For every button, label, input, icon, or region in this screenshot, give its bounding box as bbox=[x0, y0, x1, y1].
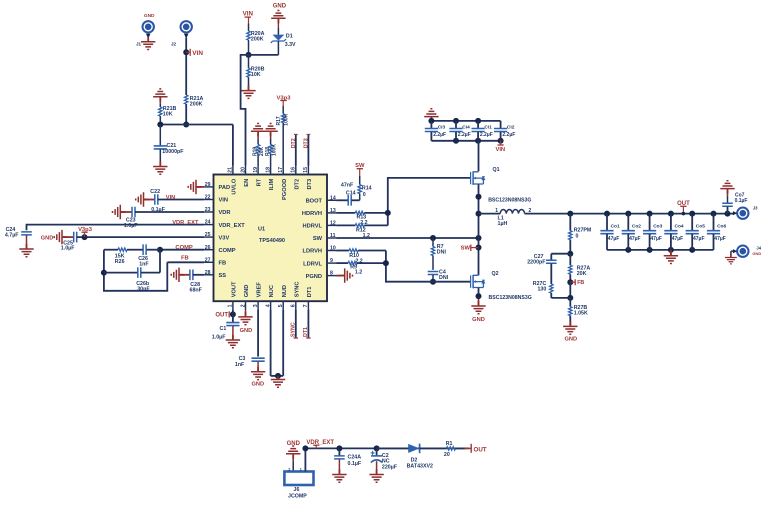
svg-text:DT1: DT1 bbox=[303, 327, 309, 337]
resistor R27A 20K bbox=[569, 254, 591, 283]
svg-text:14: 14 bbox=[330, 195, 336, 201]
svg-text:21: 21 bbox=[228, 167, 234, 173]
svg-text:J6: J6 bbox=[294, 487, 300, 493]
capacitor Co2 47uF bbox=[622, 214, 642, 250]
capacitor Ci2 2.2uF bbox=[494, 121, 515, 141]
svg-text:U1: U1 bbox=[258, 226, 265, 232]
svg-text:C24A: C24A bbox=[348, 455, 362, 461]
svg-text:Co6: Co6 bbox=[717, 223, 726, 229]
inductor L1 1uH bbox=[479, 208, 532, 227]
net label SYNC at pin 6 bbox=[291, 310, 298, 338]
svg-text:1: 1 bbox=[495, 208, 498, 214]
svg-text:Co5: Co5 bbox=[696, 223, 705, 229]
svg-text:25: 25 bbox=[205, 232, 211, 238]
resistor R12 1.2 bbox=[337, 224, 388, 239]
svg-text:R1: R1 bbox=[446, 441, 453, 447]
svg-text:R27PM: R27PM bbox=[574, 228, 592, 234]
svg-text:10: 10 bbox=[330, 246, 336, 252]
svg-text:6: 6 bbox=[291, 304, 297, 307]
svg-text:200K: 200K bbox=[251, 36, 264, 42]
svg-text:10K: 10K bbox=[163, 111, 173, 117]
transistor Q2 BSC123N08NS3G bbox=[471, 271, 532, 301]
svg-text:DT2: DT2 bbox=[294, 179, 300, 190]
ground below pins 4 5 bbox=[271, 376, 285, 387]
svg-text:1.0µF: 1.0µF bbox=[61, 246, 75, 252]
net label VIN at R20A bbox=[243, 11, 254, 24]
ground below C24 bbox=[19, 244, 33, 257]
svg-text:PAD: PAD bbox=[219, 185, 231, 191]
svg-text:J2: J2 bbox=[171, 42, 177, 47]
ground at output cap bank bbox=[664, 250, 678, 264]
capacitor C26 1nF bbox=[138, 244, 160, 267]
resistor R21B 10K bbox=[159, 97, 177, 125]
connector J3 OUT bbox=[733, 206, 758, 220]
wire EN node to pin 20 bbox=[241, 55, 249, 166]
net label OUT at R1 bbox=[471, 444, 487, 454]
svg-text:C22: C22 bbox=[150, 189, 160, 195]
wire low side gate node to Q2 bbox=[383, 251, 471, 282]
resistor R21A 200K bbox=[185, 95, 204, 107]
svg-text:SYNC: SYNC bbox=[291, 322, 297, 337]
svg-text:13: 13 bbox=[330, 208, 336, 214]
net label FB at divider bbox=[567, 279, 584, 286]
capacitor C2 NC 220uF polarized bbox=[371, 448, 398, 474]
svg-text:VIN: VIN bbox=[192, 50, 203, 57]
wire input cap rails bbox=[428, 118, 503, 144]
svg-text:4: 4 bbox=[265, 304, 271, 307]
net label GND at J1 bbox=[144, 13, 155, 19]
svg-text:DNI: DNI bbox=[437, 249, 447, 255]
ground above D1 bbox=[271, 10, 285, 28]
capacitor Co6 47uF bbox=[707, 214, 727, 250]
svg-text:47µF: 47µF bbox=[608, 236, 620, 242]
svg-text:BAT43XV2: BAT43XV2 bbox=[407, 463, 433, 469]
svg-text:FB: FB bbox=[181, 256, 189, 262]
svg-text:47µF: 47µF bbox=[693, 236, 705, 242]
wire VDR_EXT rail bbox=[302, 445, 469, 451]
svg-text:Ci4: Ci4 bbox=[462, 125, 470, 131]
svg-text:47µF: 47µF bbox=[629, 236, 641, 242]
svg-text:Q2: Q2 bbox=[492, 271, 499, 277]
node divider top bbox=[567, 251, 573, 257]
net label VDR_EXT at J6 bbox=[306, 440, 334, 449]
connector J1 bbox=[136, 20, 155, 47]
svg-text:R18: R18 bbox=[265, 147, 271, 156]
svg-text:7: 7 bbox=[303, 304, 309, 307]
capacitor Ci3 2.2uF bbox=[425, 121, 446, 141]
net label VIN at J2 bbox=[186, 49, 203, 57]
svg-text:12: 12 bbox=[330, 221, 336, 227]
svg-text:BOOT: BOOT bbox=[306, 199, 323, 205]
net label DT2 wire to pin 16 bbox=[291, 134, 298, 165]
svg-text:Co2: Co2 bbox=[632, 223, 641, 229]
svg-text:SW: SW bbox=[355, 163, 365, 169]
capacitor Co4 47uF bbox=[664, 214, 684, 250]
capacitor C28 68nF bbox=[179, 270, 204, 294]
capacitor C25 1.0uF bbox=[61, 232, 205, 252]
net label VIN at C22 bbox=[166, 195, 175, 201]
svg-text:HDRVH: HDRVH bbox=[302, 211, 322, 217]
capacitor C3 1nF bbox=[235, 310, 265, 372]
connector J2 bbox=[171, 20, 193, 47]
svg-text:24: 24 bbox=[205, 220, 211, 226]
op-amp U1 TPS40490 controller IC body bbox=[214, 175, 328, 302]
svg-text:100K: 100K bbox=[271, 144, 277, 156]
resistor R27C 130 bbox=[533, 264, 571, 298]
net label V3p3 at C25 bbox=[78, 227, 93, 240]
capacitor C24 4.7uF bbox=[5, 227, 32, 249]
net label GND below Q2 bbox=[472, 317, 485, 323]
wire Q2 source to ground bbox=[476, 288, 482, 306]
svg-text:47nF: 47nF bbox=[341, 182, 354, 188]
svg-text:2.2µF: 2.2µF bbox=[433, 132, 446, 138]
svg-text:5: 5 bbox=[278, 304, 284, 307]
capacitor C27 2200pF bbox=[527, 254, 570, 266]
svg-text:1nF: 1nF bbox=[235, 362, 245, 368]
svg-text:2.2µF: 2.2µF bbox=[480, 132, 493, 138]
svg-text:VDR: VDR bbox=[219, 210, 231, 216]
svg-text:15: 15 bbox=[303, 167, 309, 173]
svg-text:ILIM: ILIM bbox=[269, 179, 275, 191]
capacitor Co7 0.1uF bbox=[722, 189, 747, 214]
svg-text:1.2: 1.2 bbox=[355, 270, 362, 276]
svg-text:16: 16 bbox=[291, 167, 297, 173]
svg-text:17: 17 bbox=[278, 167, 284, 173]
svg-text:OUT: OUT bbox=[215, 313, 228, 319]
svg-text:20: 20 bbox=[444, 452, 450, 458]
svg-text:2200pF: 2200pF bbox=[527, 260, 546, 266]
ground below R20B bbox=[241, 85, 255, 98]
zener diode D1 3.3V bbox=[271, 28, 296, 55]
ground at input cap bank bbox=[424, 109, 438, 122]
net label GND above D1 bbox=[273, 3, 287, 9]
svg-text:10K: 10K bbox=[251, 72, 261, 78]
ground below C3 bbox=[251, 367, 265, 380]
capacitor C14 47nF bbox=[337, 182, 360, 205]
svg-text:GND: GND bbox=[273, 3, 287, 9]
svg-text:VIN: VIN bbox=[219, 198, 228, 204]
net label GND below R27B bbox=[564, 337, 577, 343]
svg-text:VIN: VIN bbox=[495, 147, 505, 153]
svg-text:LDRVH: LDRVH bbox=[303, 249, 323, 255]
svg-text:SW: SW bbox=[461, 245, 471, 251]
capacitor Co3 47uF bbox=[643, 214, 663, 250]
svg-text:GND: GND bbox=[240, 328, 253, 334]
net label OUT at output rail bbox=[677, 201, 690, 216]
wire D1 anode to EN node bbox=[249, 54, 279, 56]
svg-text:V3V: V3V bbox=[219, 235, 230, 241]
svg-text:28: 28 bbox=[205, 270, 211, 276]
ground below R27B bbox=[563, 321, 577, 334]
ground at J4 bbox=[725, 253, 737, 264]
resistor R18 100K bbox=[265, 131, 277, 165]
resistor R7 DNI bbox=[431, 238, 446, 270]
net label DT1 at pin 7 bbox=[303, 310, 310, 338]
capacitor Co5 47uF bbox=[686, 214, 706, 250]
ground at J6 pin 1 bbox=[286, 446, 300, 472]
net label VIN at input caps bbox=[495, 141, 505, 153]
net label DT3 wire to pin 15 bbox=[304, 134, 311, 165]
net label VDR_EXT at pin 24 bbox=[172, 220, 199, 226]
svg-text:Co1: Co1 bbox=[611, 223, 620, 229]
svg-text:1.0µF: 1.0µF bbox=[124, 223, 138, 229]
svg-text:4.7µF: 4.7µF bbox=[5, 232, 19, 238]
svg-text:100K: 100K bbox=[283, 113, 289, 125]
ground at C25 bbox=[54, 230, 67, 244]
svg-text:D1: D1 bbox=[286, 34, 293, 40]
svg-text:GND: GND bbox=[252, 381, 265, 387]
svg-text:LDRVL: LDRVL bbox=[303, 261, 322, 267]
net label GND at J6 bbox=[287, 441, 301, 447]
svg-text:DT3: DT3 bbox=[307, 179, 313, 190]
svg-text:Ci3: Ci3 bbox=[438, 125, 446, 131]
svg-text:23: 23 bbox=[205, 207, 211, 213]
transistor Q1 BSC123N08NS3G bbox=[471, 167, 532, 204]
net label GND at pin 2 bbox=[240, 328, 253, 334]
capacitor C26b 30pF bbox=[104, 250, 160, 293]
resistor R20B 10K bbox=[247, 55, 265, 91]
svg-text:9: 9 bbox=[330, 258, 333, 264]
wire UVLO node to pin 21 bbox=[157, 122, 233, 166]
connector J4 GND bbox=[731, 245, 762, 258]
wire J2 to VIN divider bbox=[183, 38, 189, 128]
svg-text:8: 8 bbox=[330, 271, 333, 277]
svg-text:BSC123N08NS3G: BSC123N08NS3G bbox=[489, 295, 532, 301]
svg-text:20K: 20K bbox=[577, 271, 587, 277]
capacitor C22 0.1uF bbox=[144, 189, 205, 213]
svg-text:RT: RT bbox=[257, 178, 263, 186]
wire comp left branch bbox=[101, 250, 167, 291]
svg-text:130: 130 bbox=[537, 287, 546, 293]
capacitor Ci1 2.2uF bbox=[472, 121, 493, 141]
svg-text:R19: R19 bbox=[253, 147, 259, 156]
svg-text:C14: C14 bbox=[346, 190, 356, 196]
svg-text:R14: R14 bbox=[362, 186, 372, 192]
svg-text:UVLO: UVLO bbox=[232, 178, 238, 194]
svg-text:19: 19 bbox=[253, 167, 259, 173]
wire VDR_EXT pin 24 to C24 bbox=[27, 225, 205, 231]
svg-text:VDR_EXT: VDR_EXT bbox=[306, 440, 334, 446]
net label SW at R14 bbox=[355, 163, 365, 176]
svg-text:0: 0 bbox=[576, 234, 579, 240]
svg-text:18: 18 bbox=[265, 167, 271, 173]
svg-text:SS: SS bbox=[219, 273, 227, 279]
resistor R26 15K bbox=[104, 248, 143, 265]
svg-text:BSC123N08NS3G: BSC123N08NS3G bbox=[488, 198, 531, 204]
net label V3p3 at R17 bbox=[276, 95, 291, 106]
net label GND at C3 bbox=[252, 381, 265, 387]
svg-text:JCOMP: JCOMP bbox=[288, 494, 307, 500]
U1 pin stubs and pin numbers bbox=[204, 166, 336, 311]
ground at U1 PGND pin 8 bbox=[337, 268, 353, 282]
resistor R13 2.2 bbox=[337, 211, 388, 226]
resistor R14 0 bbox=[358, 176, 372, 200]
capacitor C21 10000pF bbox=[154, 125, 185, 167]
capacitor C4 DNI snubber bbox=[428, 270, 449, 285]
svg-text:0.1µF: 0.1µF bbox=[735, 198, 748, 204]
svg-text:DNI: DNI bbox=[439, 275, 449, 281]
svg-text:EN: EN bbox=[244, 179, 250, 187]
svg-text:GND: GND bbox=[472, 317, 485, 323]
wire FB to R27B bbox=[567, 282, 573, 301]
resistor R27B 1.05K bbox=[569, 298, 588, 327]
ground at pin 2 bbox=[238, 310, 252, 325]
net label SW at switch node bbox=[461, 245, 479, 252]
svg-text:2.2µF: 2.2µF bbox=[502, 132, 515, 138]
ground at C23 bbox=[113, 205, 126, 219]
node EN divider junction bbox=[246, 52, 252, 58]
ground below Q2 bbox=[471, 301, 485, 314]
svg-text:1µH: 1µH bbox=[498, 221, 508, 227]
ground at C28 bbox=[171, 268, 184, 282]
resistor R1 20 bbox=[444, 441, 471, 458]
resistor R10 2.2 bbox=[337, 249, 386, 265]
wire high side gate node to Q1 bbox=[385, 178, 471, 226]
ground above R21B bbox=[153, 89, 167, 102]
svg-text:PGOOD: PGOOD bbox=[282, 179, 288, 200]
svg-text:1.05K: 1.05K bbox=[574, 311, 588, 317]
svg-text:GND: GND bbox=[41, 236, 53, 242]
svg-text:GND: GND bbox=[752, 251, 761, 256]
svg-text:FB: FB bbox=[219, 261, 227, 267]
resistor R17 100K bbox=[276, 106, 289, 166]
resistor R20A 200K bbox=[247, 24, 265, 55]
net label FB at pin 27 bbox=[181, 256, 189, 262]
svg-text:COMP: COMP bbox=[219, 248, 236, 254]
svg-text:C1: C1 bbox=[220, 326, 227, 332]
capacitor Co1 47uF bbox=[600, 214, 620, 250]
svg-text:20K: 20K bbox=[259, 146, 265, 156]
svg-text:1: 1 bbox=[228, 304, 234, 307]
ground at C22 bbox=[136, 192, 149, 206]
svg-text:29: 29 bbox=[205, 182, 211, 188]
svg-text:47µF: 47µF bbox=[672, 236, 684, 242]
svg-text:DT3: DT3 bbox=[304, 138, 310, 148]
svg-text:2.2µF: 2.2µF bbox=[458, 132, 471, 138]
svg-text:GND: GND bbox=[244, 285, 250, 298]
svg-text:20: 20 bbox=[240, 167, 246, 173]
resistor R19 20K bbox=[253, 131, 265, 165]
svg-text:Co4: Co4 bbox=[675, 223, 684, 229]
wire pins 4 5 to ground bbox=[271, 310, 284, 379]
diode D2 BAT43XV2 bbox=[377, 444, 447, 470]
wire VIN rail to Q1 drain bbox=[478, 141, 480, 172]
svg-text:26: 26 bbox=[205, 245, 211, 251]
resistor R27PM 0 bbox=[569, 214, 592, 254]
svg-text:COMP: COMP bbox=[175, 245, 193, 251]
svg-text:Ci1: Ci1 bbox=[484, 125, 492, 131]
capacitor Ci4 2.2uF bbox=[449, 121, 470, 141]
svg-text:J1: J1 bbox=[136, 42, 142, 47]
ground below C24A bbox=[332, 469, 346, 482]
resistor R9 1.2 bbox=[337, 261, 386, 275]
svg-text:68nF: 68nF bbox=[190, 287, 203, 293]
svg-text:GND: GND bbox=[144, 13, 155, 19]
svg-text:Q1: Q1 bbox=[493, 167, 500, 173]
svg-text:VDR_EXT: VDR_EXT bbox=[219, 223, 246, 229]
svg-text:GND: GND bbox=[564, 337, 577, 343]
svg-text:10000pF: 10000pF bbox=[162, 149, 184, 155]
ground below C21 bbox=[153, 161, 167, 174]
jumper J6 JCOMP bbox=[284, 448, 313, 499]
wire switch node vertical bbox=[476, 184, 482, 275]
capacitor C1 1.0uF bbox=[212, 310, 240, 340]
svg-text:HDRVL: HDRVL bbox=[303, 224, 323, 230]
svg-text:47µF: 47µF bbox=[650, 236, 662, 242]
svg-text:SW: SW bbox=[313, 236, 323, 242]
svg-text:200K: 200K bbox=[190, 101, 203, 107]
wire FB pin 27 bbox=[167, 261, 204, 263]
svg-text:DT2: DT2 bbox=[291, 138, 297, 148]
svg-text:1.0µF: 1.0µF bbox=[212, 334, 226, 340]
svg-text:TPS40490: TPS40490 bbox=[259, 238, 285, 244]
svg-text:30pF: 30pF bbox=[137, 287, 150, 293]
svg-text:3.3V: 3.3V bbox=[285, 42, 296, 48]
svg-text:VIN: VIN bbox=[166, 195, 175, 201]
svg-text:NUD: NUD bbox=[282, 285, 288, 297]
svg-text:PGND: PGND bbox=[306, 274, 322, 280]
net label COMP bbox=[175, 245, 193, 251]
ground above R19 bbox=[251, 124, 265, 137]
wire COMP pin 26 network bbox=[157, 247, 204, 253]
net label OUT at pin 1 bbox=[215, 311, 236, 318]
svg-text:SYNC: SYNC bbox=[294, 281, 300, 297]
ground above Co7 bbox=[720, 181, 734, 194]
ground at J1 bbox=[141, 37, 155, 50]
svg-text:220µF: 220µF bbox=[382, 464, 398, 470]
svg-text:Ci2: Ci2 bbox=[507, 125, 515, 131]
capacitor C24A 0.1uF bbox=[334, 448, 362, 474]
svg-text:Co3: Co3 bbox=[653, 223, 662, 229]
svg-text:FB: FB bbox=[577, 280, 584, 286]
ground below C1 bbox=[226, 335, 240, 348]
svg-text:OUT: OUT bbox=[474, 446, 487, 453]
capacitor C23 1.0uF bbox=[120, 207, 204, 229]
svg-text:R26: R26 bbox=[115, 259, 125, 265]
wire output cap bottom rail bbox=[607, 247, 714, 253]
svg-text:VREF: VREF bbox=[257, 282, 263, 298]
wire OUT rail bbox=[525, 211, 734, 217]
wire SW pin 11 to switch node bbox=[337, 235, 482, 241]
svg-text:22: 22 bbox=[205, 195, 211, 201]
svg-text:R17: R17 bbox=[276, 116, 282, 125]
svg-text:0.1µF: 0.1µF bbox=[348, 461, 362, 467]
ground above R18 bbox=[263, 124, 277, 137]
svg-text:DT1: DT1 bbox=[307, 287, 313, 298]
svg-text:VDR_EXT: VDR_EXT bbox=[172, 220, 199, 226]
svg-text:2: 2 bbox=[240, 304, 246, 307]
svg-text:27: 27 bbox=[205, 257, 211, 263]
svg-text:NUC: NUC bbox=[269, 285, 275, 297]
ground at U1 PAD pin 29 bbox=[188, 180, 204, 194]
svg-text:VOUT: VOUT bbox=[232, 281, 238, 297]
net label GND at C25 bbox=[41, 236, 53, 242]
svg-text:1nF: 1nF bbox=[139, 262, 149, 268]
svg-text:11: 11 bbox=[330, 233, 336, 239]
ground below C2 bbox=[369, 469, 383, 482]
svg-text:47µF: 47µF bbox=[714, 236, 726, 242]
svg-text:0: 0 bbox=[363, 192, 366, 198]
svg-text:J3: J3 bbox=[753, 206, 758, 211]
svg-text:3: 3 bbox=[253, 304, 259, 307]
